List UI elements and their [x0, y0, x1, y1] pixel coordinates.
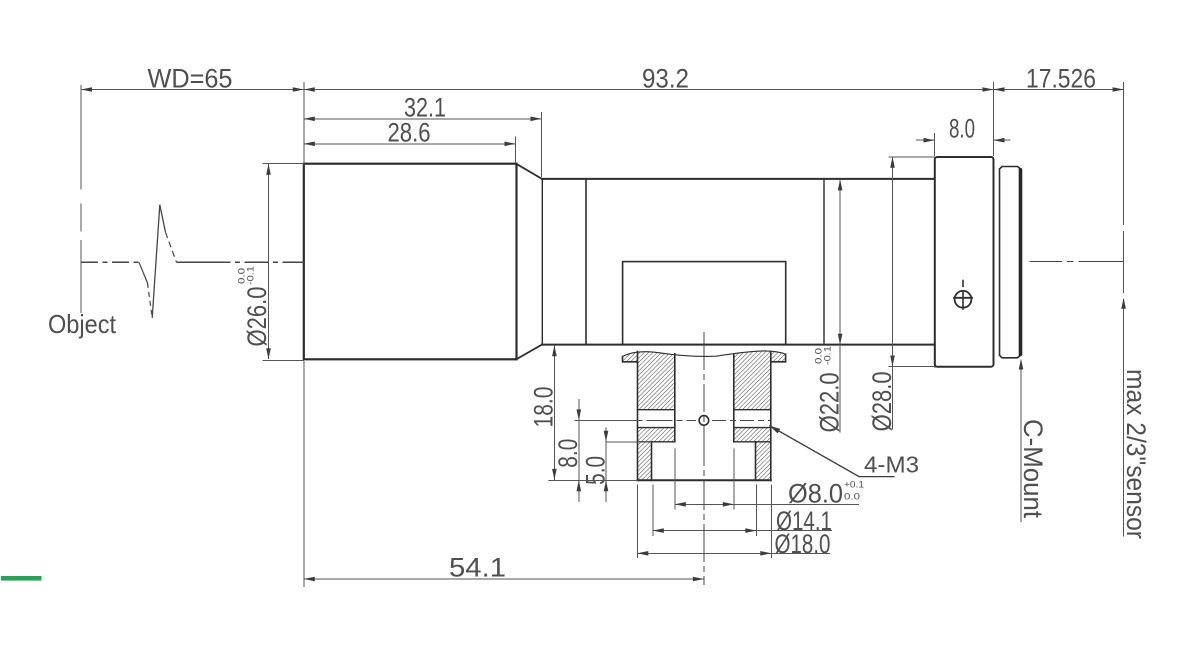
section wavy break line: [623, 351, 786, 357]
8.0 sec dimension line x578.8: [578, 399, 580, 502]
mid barrel seam x586: [585, 179, 587, 345]
arrow 18.0 bottom: [552, 469, 557, 480]
arrow Ø26 bottom: [266, 348, 271, 359]
arrow Ø14.1 right: [745, 528, 756, 533]
svg-text:Ø22.0: Ø22.0: [815, 372, 845, 432]
svg-text:28.6: 28.6: [388, 118, 431, 148]
arrow Ø8 right: [723, 502, 734, 507]
set screw dash above: [962, 281, 964, 287]
32.1 dimension line: [304, 118, 542, 120]
mid barrel seam x824: [823, 179, 825, 345]
arrow WD right: [293, 87, 304, 92]
mid barrel seam at chamfer end: [541, 179, 543, 345]
Ø8 hole right wall: [733, 354, 735, 442]
Ø14.1 right extension: [755, 485, 757, 537]
right column outer edge: [770, 352, 772, 481]
section hatch: right column upper: [734, 351, 771, 410]
lens front extension line x303.8 top: [303, 82, 305, 163]
optical axis right: dash-dot near image plane: [1030, 261, 1124, 263]
Ø14.1 dimension line y530.6: [653, 530, 832, 532]
arrow 93.2 right: [983, 87, 994, 92]
front barrel (Ø26) body: [304, 164, 517, 360]
5.0 extension y441.8: [606, 441, 652, 443]
arrow C-Mount up: [1019, 359, 1024, 370]
chamfer bottom front->mid: [517, 345, 543, 360]
optical axis left: dash-dot from object line to lens front: [81, 261, 139, 263]
svg-text:18.0: 18.0: [529, 387, 559, 428]
M3 hole top edges: [638, 409, 771, 411]
object plane extension line x81: [80, 85, 82, 313]
section hatch: left skirt wall: [638, 442, 652, 481]
WD=65 dimension line: [81, 89, 304, 91]
54.1 dimension line y579: [304, 578, 704, 580]
C-mount thread part body: [1000, 167, 1022, 358]
arrow 8.0top right (outside): [994, 138, 1005, 143]
arrow 32.1 left: [304, 117, 315, 122]
arrow Ø14.1 left: [653, 528, 664, 533]
arrow Ø26 top: [266, 164, 271, 175]
mounting block rectangle: [623, 262, 786, 345]
arrow 28.6 left: [304, 142, 315, 147]
arrow Ø18 right: [760, 551, 771, 556]
svg-text:-0.1: -0.1: [823, 346, 834, 365]
arrow 54.1 right: [693, 577, 704, 582]
17.526 dimension line: [994, 89, 1124, 91]
arrow 17.526 left: [994, 87, 1005, 92]
arrow Ø22 top: [838, 179, 843, 190]
extension line x993.5 (93.2 / 17.526): [993, 82, 995, 156]
counterbore right wall: [755, 442, 757, 481]
svg-text:Ø8.0: Ø8.0: [788, 479, 843, 509]
arrow Ø28 top: [890, 157, 895, 168]
svg-text:WD=65: WD=65: [148, 64, 233, 94]
extension line x934.5 (8.0 top): [934, 133, 936, 156]
arrow 54.1 left: [304, 577, 315, 582]
image plane extension x1123.6: [1123, 82, 1125, 293]
Ø28 extension bottom y366.5: [888, 366, 934, 368]
svg-text:Ø28.0: Ø28.0: [867, 371, 897, 431]
extension line x541.5 (32.1): [541, 112, 543, 177]
left column outer edge: [637, 352, 639, 481]
arrow 93.2 left: [304, 87, 315, 92]
arrow 32.1 right: [531, 117, 542, 122]
arrow WD left: [81, 87, 92, 92]
svg-text:4-M3: 4-M3: [864, 452, 919, 478]
4-M3 leader: [769, 426, 894, 477]
section hatch: left column upper: [638, 351, 675, 410]
svg-text:54.1: 54.1: [449, 553, 506, 583]
svg-text:Ø18.0: Ø18.0: [775, 529, 831, 559]
skirt bottom extension to left y480.3: [549, 479, 638, 481]
5.0 dimension line x606: [605, 428, 607, 503]
arrow 5.0 top (outside, pointing down): [604, 431, 609, 442]
set screw vertical line: [962, 292, 964, 310]
svg-text:max 2/3"sensor: max 2/3"sensor: [1121, 369, 1151, 539]
max sensor line x1123.6 lower: [1123, 299, 1125, 537]
arrow 18.0 top: [552, 345, 557, 356]
arrow 5.0 bottom (outside, pointing up): [604, 480, 609, 491]
Ø8.0 dimension line y504.3: [675, 503, 859, 505]
svg-text:Ø26.0: Ø26.0: [242, 287, 272, 347]
arrow Ø28 bottom: [890, 356, 895, 367]
green scale bar: [1, 576, 42, 581]
skirt bottom edge: [638, 479, 771, 481]
section hatch: right column mid band: [734, 428, 771, 442]
set screw symbol: circle: [955, 291, 972, 308]
Ø14.1 left extension: [652, 485, 654, 537]
chamfer top front->mid: [517, 164, 543, 179]
section hatch: right skirt wall: [756, 442, 771, 481]
svg-text:5.0: 5.0: [581, 456, 611, 485]
Ø26 extension top: [263, 163, 304, 165]
Ø22 dimension line x840: [839, 179, 841, 432]
left lip outer edge: [623, 357, 638, 362]
Ø8 right extension: [733, 449, 735, 510]
svg-text:8.0: 8.0: [949, 114, 975, 144]
Ø18.0 dimension line y553.3: [637, 552, 830, 554]
arrow Ø22 bottom: [838, 334, 843, 345]
M3 axis extension to left y420.4: [575, 419, 640, 421]
counterbore step edges: [638, 441, 771, 443]
mid barrel bottom edge: [542, 344, 934, 346]
set screw slot horizontal: [954, 297, 972, 299]
svg-text:0.0: 0.0: [844, 492, 860, 503]
svg-text:17.526: 17.526: [1026, 64, 1096, 94]
mid barrel (Ø22) top edge: [542, 178, 934, 180]
arrow 17.526 right: [1113, 87, 1124, 92]
28.6 dimension line: [304, 143, 516, 145]
flange left edge lower stub: [934, 345, 936, 367]
svg-text:Object: Object: [48, 309, 117, 339]
thread right thick edge: [1019, 170, 1022, 355]
Ø28 dimension line x892.5: [892, 157, 894, 430]
break (zigzag) symbol on axis: [139, 262, 148, 283]
M3 tap drill circle: [699, 416, 709, 426]
svg-text:93.2: 93.2: [642, 64, 689, 94]
18.0 dimension line x554.4: [553, 345, 555, 480]
Ø8 left extension: [674, 449, 676, 510]
8.0 top dimension line with outside tails: [916, 139, 1011, 141]
Ø18 right extension: [770, 485, 772, 559]
svg-text:+0.1: +0.1: [844, 480, 864, 491]
C-mount flange (Ø28): [935, 157, 994, 367]
C-Mount leader line x1021: [1020, 361, 1022, 522]
arrow 8.0top left (outside): [924, 138, 935, 143]
Ø26 dimension line x268.5: [268, 164, 270, 360]
93.2 dimension line: [304, 89, 994, 91]
M3 hole bottom edges: [638, 427, 771, 429]
M3 hole horizontal axis dash-dot: [575, 419, 697, 421]
svg-text:-0.1: -0.1: [246, 266, 257, 285]
section hatch: right lip: [771, 351, 786, 362]
right lip outer edge: [771, 354, 786, 362]
arrow max-sensor up: [1121, 298, 1126, 309]
svg-text:C-Mount: C-Mount: [1018, 419, 1048, 518]
Ø8 hole left wall: [674, 354, 676, 442]
arrow 8.0sec top (outside, pointing down): [577, 409, 582, 420]
extension line x515.5 (28.6): [515, 137, 517, 163]
arrow 28.6 right: [505, 142, 516, 147]
Ø26 extension bottom: [263, 360, 304, 362]
section hatch: left column mid band: [638, 428, 675, 442]
section vertical center axis: [703, 332, 705, 585]
Ø18 left extension below skirt: [636, 485, 638, 559]
svg-text:8.0: 8.0: [553, 439, 583, 468]
arrow 8.0sec bottom (outside, pointing up): [577, 480, 582, 491]
lens front extension line x303.8 bottom (to 54.1 dim): [303, 361, 305, 587]
arrow Ø8 left: [675, 502, 686, 507]
arrow Ø18 left: [637, 551, 648, 556]
section hatch: left lip: [623, 351, 638, 362]
counterbore left wall: [651, 442, 653, 481]
arrow 4-M3 leader: [769, 426, 780, 434]
Ø28 extension top y156.8: [888, 156, 934, 158]
